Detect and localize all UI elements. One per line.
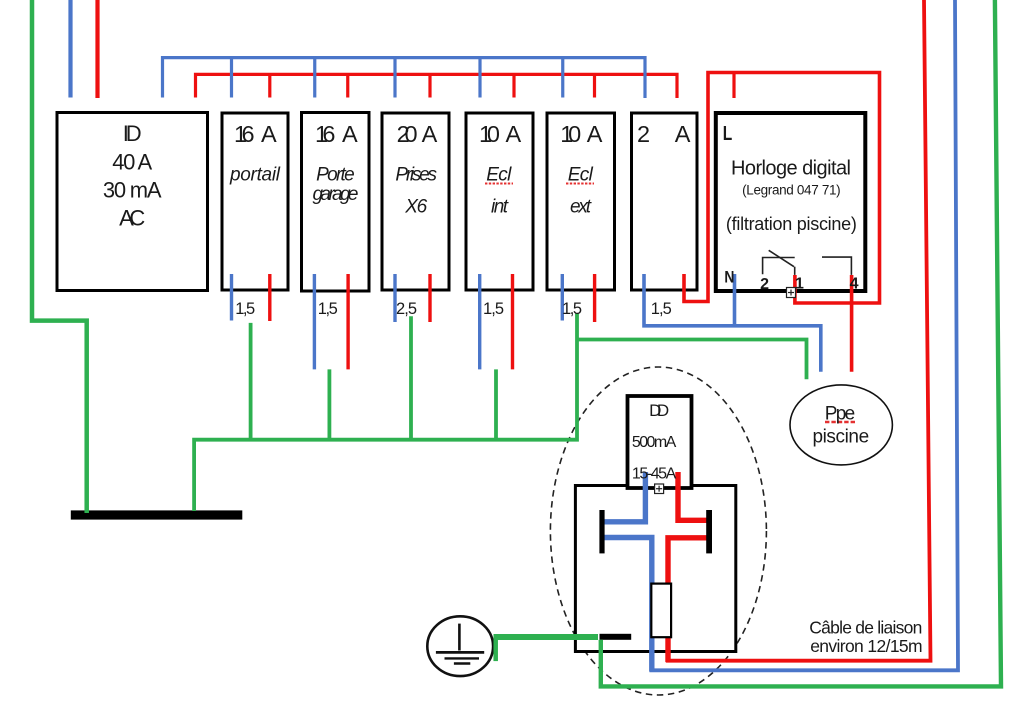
svg-text:Prises: Prises	[395, 164, 437, 185]
svg-text:N: N	[724, 267, 734, 286]
svg-text:16: 16	[234, 121, 255, 147]
svg-text:10: 10	[560, 121, 581, 147]
svg-text:piscine: piscine	[812, 427, 869, 448]
svg-text:portail: portail	[229, 164, 281, 185]
svg-text:ID: ID	[123, 121, 142, 146]
svg-text:10: 10	[479, 121, 500, 147]
svg-text:L: L	[723, 123, 733, 145]
svg-text:40 A: 40 A	[112, 149, 152, 174]
svg-text:A: A	[261, 121, 277, 147]
svg-text:Ecl: Ecl	[568, 164, 594, 185]
svg-text:A: A	[342, 121, 358, 147]
svg-text:500mA: 500mA	[632, 434, 677, 451]
svg-text:environ 12/15m: environ 12/15m	[810, 636, 922, 656]
svg-text:A: A	[422, 121, 438, 147]
svg-text:A: A	[506, 121, 522, 147]
svg-text:20: 20	[397, 121, 418, 147]
svg-text:A: A	[587, 121, 603, 147]
svg-text:(Legrand 047 71): (Legrand 047 71)	[742, 182, 841, 197]
svg-text:2,5: 2,5	[396, 300, 417, 318]
svg-text:Ppe: Ppe	[825, 404, 856, 425]
svg-text:1,5: 1,5	[235, 300, 255, 318]
svg-text:(filtration piscine): (filtration piscine)	[726, 214, 857, 234]
svg-text:30 mA: 30 mA	[103, 178, 162, 203]
svg-text:2: 2	[760, 276, 769, 293]
svg-text:15-45A: 15-45A	[632, 466, 677, 483]
svg-text:1,5: 1,5	[483, 300, 504, 318]
svg-text:Porte: Porte	[316, 164, 355, 185]
svg-text:garage: garage	[313, 184, 359, 205]
svg-text:DD: DD	[649, 401, 669, 420]
svg-text:A: A	[675, 121, 691, 147]
svg-text:1,5: 1,5	[562, 300, 582, 318]
svg-text:AC: AC	[119, 205, 145, 230]
svg-text:1,5: 1,5	[651, 300, 672, 318]
svg-text:Ecl: Ecl	[486, 164, 512, 185]
svg-text:2: 2	[637, 121, 650, 147]
svg-text:16: 16	[315, 121, 336, 147]
svg-text:int: int	[491, 197, 509, 218]
svg-text:1: 1	[795, 276, 804, 293]
svg-text:Horloge digital: Horloge digital	[731, 158, 851, 180]
svg-text:ext: ext	[570, 197, 592, 218]
svg-text:Câble de liaison: Câble de liaison	[809, 618, 922, 638]
svg-text:X6: X6	[404, 197, 427, 218]
svg-text:1,5: 1,5	[318, 300, 338, 318]
svg-text:4: 4	[850, 276, 859, 293]
